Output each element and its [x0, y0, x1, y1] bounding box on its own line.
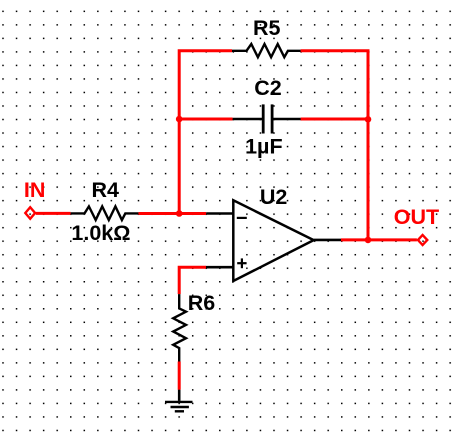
svg-text:1µF: 1µF	[245, 134, 282, 158]
svg-text:R6: R6	[188, 291, 216, 315]
svg-text:1.0kΩ: 1.0kΩ	[71, 221, 130, 245]
svg-text:U2: U2	[260, 185, 288, 209]
svg-text:OUT: OUT	[394, 205, 439, 229]
svg-text:R5: R5	[253, 16, 281, 40]
svg-text:IN: IN	[24, 178, 46, 202]
svg-text:C2: C2	[254, 76, 282, 100]
svg-text:R4: R4	[92, 178, 120, 202]
